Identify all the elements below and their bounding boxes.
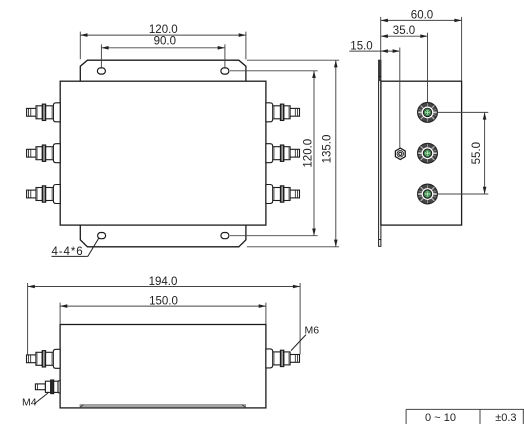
svg-text:90.0: 90.0 bbox=[154, 36, 176, 48]
svg-text:15.0: 15.0 bbox=[350, 40, 372, 52]
svg-text:35.0: 35.0 bbox=[393, 25, 415, 37]
svg-text:135.0: 135.0 bbox=[322, 135, 334, 164]
svg-text:±0.3: ±0.3 bbox=[495, 412, 516, 424]
svg-text:M4: M4 bbox=[22, 396, 37, 408]
svg-text:194.0: 194.0 bbox=[149, 276, 178, 288]
svg-text:0 ~ 10: 0 ~ 10 bbox=[425, 412, 456, 424]
svg-text:55.0: 55.0 bbox=[471, 142, 483, 164]
svg-text:60.0: 60.0 bbox=[411, 9, 433, 21]
svg-text:120.0: 120.0 bbox=[303, 139, 315, 168]
svg-text:150.0: 150.0 bbox=[149, 296, 178, 308]
svg-text:4-4*6: 4-4*6 bbox=[52, 246, 84, 258]
svg-text:M6: M6 bbox=[305, 325, 320, 337]
svg-text:120.0: 120.0 bbox=[149, 24, 178, 36]
